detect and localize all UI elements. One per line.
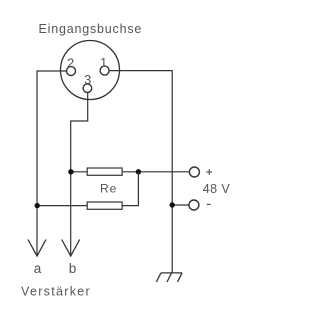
- arrowhead b: [62, 240, 80, 257]
- pin 1 contact: [100, 66, 109, 75]
- svg-text:b: b: [69, 261, 77, 276]
- minus sign: [207, 203, 211, 205]
- junction at resistor pair right: [136, 169, 141, 174]
- svg-text:a: a: [34, 261, 42, 276]
- svg-text:3: 3: [84, 72, 91, 87]
- wire node b to resistor Re top: [71, 171, 88, 173]
- chassis ground: [156, 273, 182, 282]
- wire right rail to minus terminal: [172, 204, 189, 206]
- wire pin1 to right vertical rail: [109, 71, 172, 273]
- svg-text:48 V: 48 V: [203, 182, 231, 196]
- wire node a to lower resistor: [37, 205, 87, 207]
- wire junction down to lower resistor right: [122, 172, 138, 206]
- resistor Re (upper): [87, 168, 122, 175]
- junction on right rail: [170, 202, 175, 207]
- svg-text:1: 1: [100, 55, 107, 70]
- wire pin2 to node a (left vertical): [37, 71, 67, 255]
- svg-text:Eingangsbuchse: Eingangsbuchse: [39, 22, 143, 36]
- wire upper resistor to plus terminal: [122, 171, 189, 173]
- XLR connector body J1: [61, 41, 120, 100]
- junction on wire a: [35, 203, 40, 208]
- terminal plus: [189, 167, 199, 177]
- svg-text:Verstärker: Verstärker: [21, 285, 91, 299]
- pin 2 contact: [67, 67, 76, 76]
- pin 3 contact: [83, 84, 92, 93]
- plus sign: [206, 169, 212, 175]
- junction on wire b: [68, 169, 73, 174]
- arrowhead a: [28, 240, 46, 257]
- resistor Re (lower): [87, 202, 122, 209]
- wire pin3 to node b (jog then vertical): [71, 93, 88, 255]
- svg-text:Re: Re: [100, 182, 117, 196]
- svg-text:2: 2: [67, 55, 74, 70]
- terminal minus: [189, 200, 199, 210]
